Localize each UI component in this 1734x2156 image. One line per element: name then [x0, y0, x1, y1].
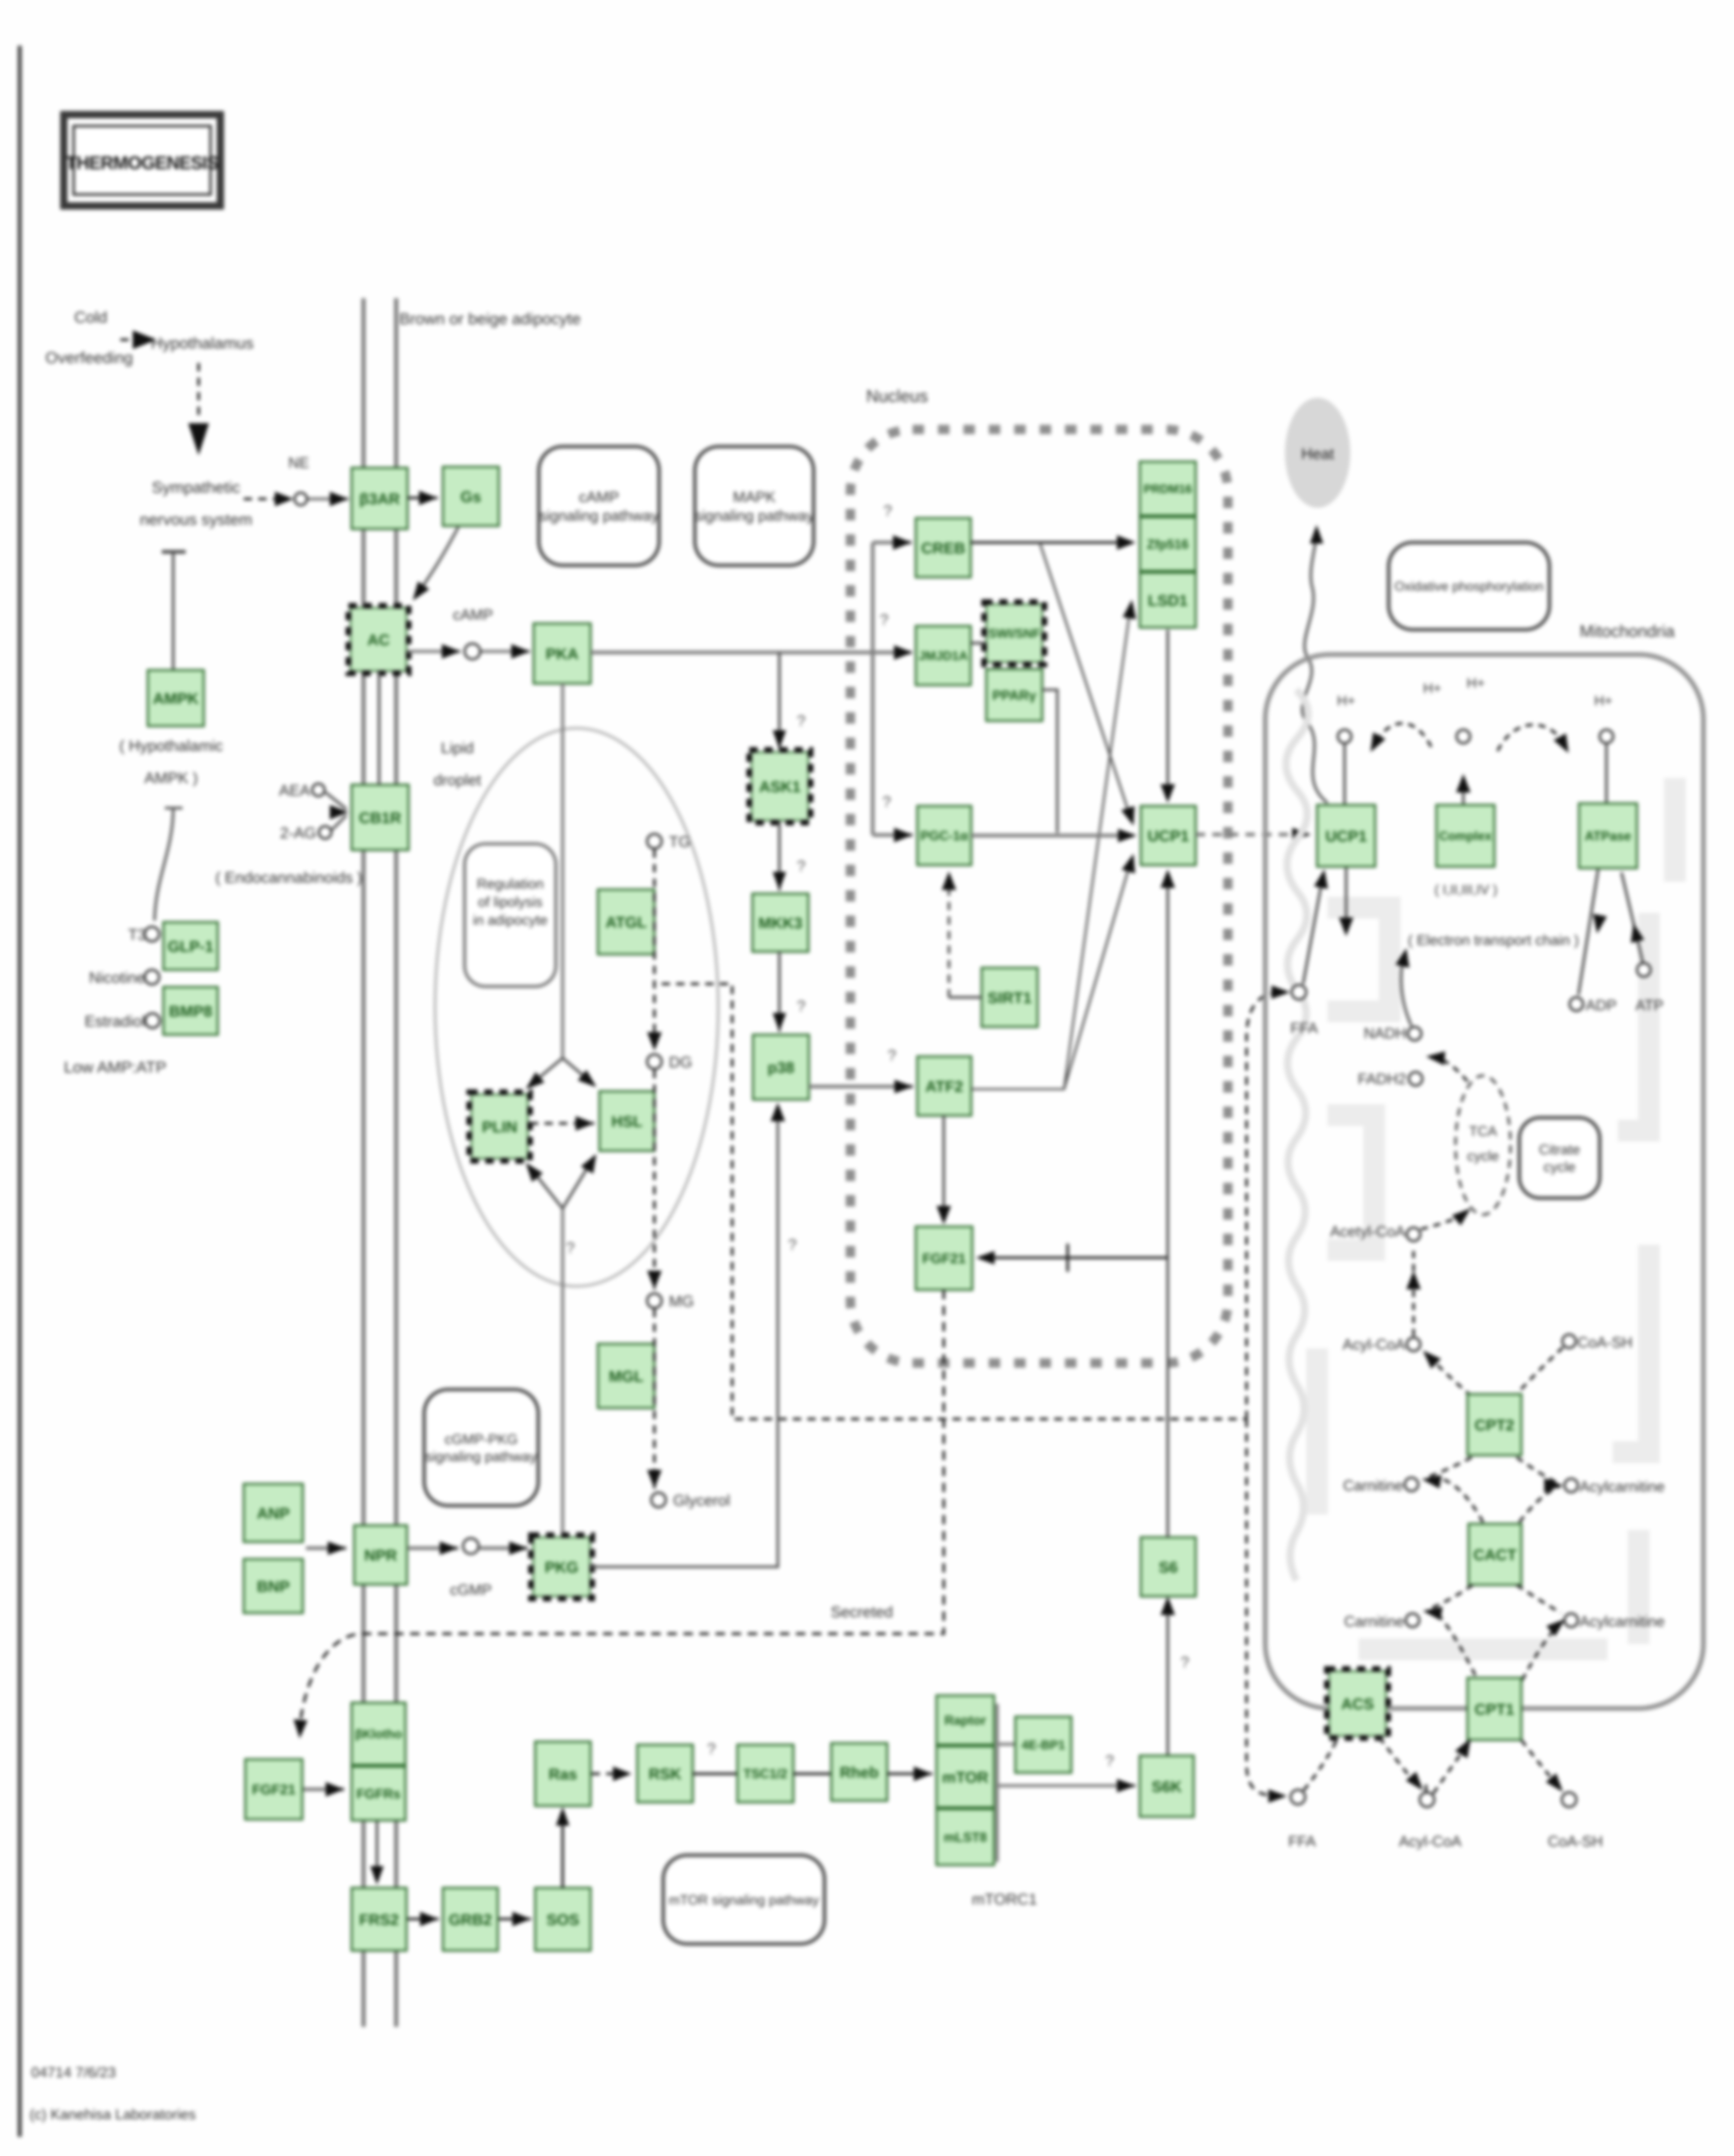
svg-text:UCP1: UCP1 — [1325, 828, 1367, 845]
svg-text:4E-BP1: 4E-BP1 — [1022, 1738, 1065, 1752]
node T3 — [145, 927, 159, 941]
arrow CREB branch to UCP1 gene — [1040, 543, 1135, 826]
arrow PRDM16 stack to UCP1 gene — [1160, 630, 1175, 803]
wire JMJD1A to SWI/SNF — [971, 642, 986, 645]
svg-text:Oxidative phosphorylation: Oxidative phosphorylation — [1394, 579, 1544, 594]
arrow Acyl-CoA to Acetyl-CoA (beta oxidation) — [1406, 1246, 1421, 1336]
ASK1 — [749, 750, 810, 823]
HSL — [599, 1091, 654, 1151]
arrow PKG to PLIN — [526, 1163, 563, 1208]
UCP1 mito — [1317, 805, 1375, 867]
svg-text:ACS: ACS — [1341, 1695, 1374, 1713]
svg-text:?: ? — [888, 1047, 897, 1064]
node FFA upper — [1292, 985, 1306, 999]
nucleus dashed boundary — [850, 429, 1228, 1363]
svg-text:TG: TG — [669, 833, 691, 851]
CB1R — [352, 785, 409, 850]
box Citrate cycle — [1519, 1118, 1600, 1198]
wire PKA down through lipid droplet — [561, 684, 564, 1058]
node CoA-SH in — [1562, 1334, 1576, 1348]
wire S6 to UCP1 line — [1167, 1258, 1169, 1537]
Raptor — [936, 1695, 994, 1745]
svg-text:PPARγ: PPARγ — [992, 687, 1037, 703]
box mTOR signaling pathway — [663, 1855, 824, 1944]
arrow S6K line up to UCP1 gene — [1160, 869, 1175, 1258]
B3AR — [352, 468, 408, 529]
svg-text:Overfeeding: Overfeeding — [46, 349, 133, 367]
svg-text:AMPK ): AMPK ) — [144, 770, 198, 787]
box cAMP signaling pathway — [539, 447, 659, 565]
svg-text:SWI/SNF: SWI/SNF — [988, 627, 1040, 641]
AC — [348, 606, 409, 673]
node ADP — [1570, 997, 1583, 1011]
svg-text:ATF2: ATF2 — [926, 1078, 963, 1095]
node Nicotine — [145, 970, 159, 984]
wire RSK to TSC1/2 — [693, 1773, 737, 1775]
svg-text:AMPK: AMPK — [153, 690, 199, 707]
PLIN — [469, 1092, 530, 1161]
svg-text:Regulation: Regulation — [477, 876, 543, 892]
arrow ACS to Acyl-CoA lower — [1379, 1737, 1426, 1792]
node NADH — [1408, 1027, 1421, 1040]
wire PKA branch vertical — [871, 543, 875, 835]
svg-text:CoA-SH: CoA-SH — [1548, 1833, 1603, 1850]
arrow S6K to S6 — [1160, 1596, 1175, 1756]
TCA cycle ellipse — [1456, 1076, 1511, 1215]
arrow PKG to HSL — [563, 1154, 596, 1208]
svg-text:CB1R: CB1R — [359, 810, 401, 827]
arrow H+ through UCP1 — [1339, 867, 1353, 936]
svg-text:MG: MG — [669, 1293, 694, 1310]
svg-text:( Electron transport chain ): ( Electron transport chain ) — [1408, 932, 1579, 948]
wavy arrow UCP1 to Heat — [1302, 525, 1327, 803]
node Estradiol — [145, 1013, 160, 1028]
node NE — [295, 493, 307, 505]
arrow PGC-1a to UCP1 gene — [971, 829, 1137, 842]
svg-text:cGMP: cGMP — [450, 1582, 492, 1598]
FGF21 external — [245, 1759, 302, 1819]
CPT2 — [1467, 1394, 1521, 1455]
svg-text:PLIN: PLIN — [482, 1119, 517, 1136]
ATGL — [598, 889, 654, 954]
node H+ complex — [1457, 730, 1470, 743]
node TG — [647, 834, 662, 849]
inhibition line T3/Nicotine/Estradiol to AMPK — [155, 808, 183, 921]
arrow ATF2 branch to UCP1 gene — [1064, 854, 1135, 1089]
svg-text:?: ? — [884, 503, 892, 520]
arrow ASK1 to MKK3 — [773, 821, 786, 891]
NPR — [354, 1525, 407, 1584]
ANP — [244, 1484, 303, 1542]
arrow H+ out complex — [1456, 774, 1471, 805]
arrow CPT2 to acylcarnitine upper — [1517, 1457, 1563, 1522]
arrow B3AR to Gs — [408, 491, 438, 505]
arrow MG to Glycerol — [647, 1309, 662, 1489]
svg-text:Zfp516: Zfp516 — [1147, 537, 1189, 552]
arrow cAMP to PKA — [481, 644, 530, 659]
svg-text:DG: DG — [669, 1054, 692, 1071]
title box THERMOGENESIS — [64, 115, 220, 206]
svg-text:Low AMP:ATP: Low AMP:ATP — [64, 1058, 166, 1076]
arrow NE to B3AR — [308, 492, 348, 506]
arrow H+ arc complex to UCP1 — [1371, 724, 1431, 752]
PRDM16 — [1140, 462, 1196, 516]
arrow S6K branch to FGF21 — [976, 1244, 1168, 1272]
svg-text:AC: AC — [367, 632, 389, 649]
Ras — [535, 1742, 591, 1806]
svg-text:ATPase: ATPase — [1585, 829, 1631, 844]
Rheb — [831, 1743, 887, 1801]
svg-text:GRB2: GRB2 — [449, 1911, 492, 1928]
box MAPK signaling pathway — [694, 447, 814, 565]
svg-text:PGC-1α: PGC-1α — [920, 829, 968, 843]
svg-text:CPT2: CPT2 — [1475, 1417, 1515, 1434]
node Acyl-CoA lower — [1420, 1792, 1434, 1807]
wire FGF21 secreted — [300, 1290, 944, 1727]
arrow PKA to CREB — [873, 535, 912, 550]
arrow Hypothalamus to SNS — [188, 363, 209, 455]
wire PKG up through lipid droplet — [561, 1208, 564, 1537]
node Acetyl-CoA — [1407, 1228, 1420, 1241]
node ATP — [1637, 963, 1651, 977]
svg-text:SOS: SOS — [547, 1911, 579, 1928]
mTOR — [936, 1746, 994, 1807]
svg-text:mTOR: mTOR — [942, 1769, 989, 1786]
node 2-AG — [319, 826, 331, 839]
S6 — [1141, 1537, 1196, 1596]
svg-text:signaling pathway: signaling pathway — [694, 508, 814, 524]
svg-text:cycle: cycle — [1467, 1148, 1499, 1164]
wire FFA from lipolysis — [662, 984, 1247, 1419]
arrow Rheb to mTORC1 — [887, 1766, 932, 1781]
Zfp516 — [1140, 517, 1196, 571]
svg-text:S6K: S6K — [1152, 1778, 1182, 1796]
arrow DG to MG — [647, 1070, 662, 1289]
arrow CREB to Zfp516 — [971, 535, 1136, 550]
svg-text:Lipid: Lipid — [441, 740, 473, 757]
4E-BP1 — [1015, 1717, 1071, 1773]
svg-text:CREB: CREB — [921, 540, 965, 557]
svg-text:UCP1: UCP1 — [1148, 828, 1189, 845]
arrow mTORC1 to S6K — [997, 1779, 1136, 1792]
mitochondria inner cristae — [1317, 778, 1675, 1649]
arrow CPT1 to CoA-SH lower — [1521, 1740, 1563, 1792]
svg-text:?: ? — [797, 713, 806, 730]
ATPase — [1579, 803, 1637, 868]
svg-text:Citrate: Citrate — [1539, 1142, 1581, 1157]
arrow NADH to ETC — [1395, 948, 1411, 1026]
arrow TG to DG — [647, 850, 662, 1051]
svg-text:(c) Kanehisa Laboratories: (c) Kanehisa Laboratories — [30, 2106, 196, 2122]
svg-text:Secreted: Secreted — [831, 1604, 893, 1621]
arrow Acetyl-CoA to TCA — [1421, 1208, 1471, 1229]
JMJD1A — [916, 626, 971, 685]
svg-text:?: ? — [788, 1236, 797, 1254]
wire PKG to p38 — [590, 1103, 785, 1567]
svg-text:Sympathetic: Sympathetic — [152, 478, 241, 496]
svg-text:MKK3: MKK3 — [758, 915, 802, 932]
svg-text:Heat: Heat — [1301, 446, 1334, 463]
arrow SOS to Ras — [556, 1807, 569, 1888]
svg-text:BNP: BNP — [257, 1578, 289, 1595]
S6K — [1140, 1756, 1194, 1817]
svg-text:Mitochondria: Mitochondria — [1579, 622, 1674, 641]
svg-text:Brown or beige adipocyte: Brown or beige adipocyte — [399, 310, 581, 328]
svg-text:H+: H+ — [1594, 693, 1612, 708]
node FFA lower — [1291, 1790, 1305, 1804]
arrow ATP to ATPase — [1621, 872, 1644, 962]
arrow Ras to RSK — [592, 1766, 632, 1781]
arrow Acyl-CoA lower to CPT1 — [1433, 1738, 1471, 1793]
svg-text:?: ? — [797, 998, 806, 1015]
node Acylcarnitine lower — [1564, 1613, 1578, 1627]
FGF21 nuclear — [916, 1227, 972, 1290]
svg-text:ASK1: ASK1 — [759, 778, 801, 796]
arrow MKK3 to p38 — [773, 952, 786, 1032]
wire TSC1/2 to Rheb — [793, 1773, 831, 1775]
wire CB1R to AC — [378, 672, 381, 785]
PKA — [534, 623, 591, 684]
svg-text:droplet: droplet — [433, 772, 481, 789]
svg-text:ATP: ATP — [1635, 997, 1663, 1014]
SIRT1 — [982, 968, 1038, 1027]
svg-text:FGFRs: FGFRs — [356, 1786, 400, 1801]
svg-text:?: ? — [1106, 1752, 1114, 1770]
svg-text:Carnitine: Carnitine — [1343, 1478, 1403, 1494]
svg-text:Raptor: Raptor — [944, 1714, 986, 1728]
svg-text:mLST8: mLST8 — [944, 1830, 987, 1845]
arrow AC to cAMP — [408, 644, 460, 659]
arrow TCA to NADH — [1426, 1051, 1467, 1081]
wire H+ into UCP1 — [1344, 743, 1346, 805]
wire mTORC1 bracket — [996, 1704, 999, 1862]
svg-text:Complex: Complex — [1439, 829, 1492, 843]
left page border line — [18, 46, 22, 2137]
svg-text:04714 7/6/23: 04714 7/6/23 — [31, 2064, 116, 2080]
svg-text:T3: T3 — [128, 926, 146, 943]
ACS — [1327, 1669, 1388, 1738]
Complex — [1436, 805, 1494, 867]
FRS2 — [352, 1888, 407, 1951]
wire CoA-SH to CPT2 — [1517, 1347, 1563, 1394]
svg-text:?: ? — [707, 1741, 716, 1758]
svg-text:ADP: ADP — [1586, 997, 1617, 1014]
svg-text:βKlotho: βKlotho — [355, 1728, 402, 1742]
MKK3 — [752, 894, 808, 952]
svg-text:cycle: cycle — [1544, 1159, 1576, 1175]
svg-text:H+: H+ — [1466, 675, 1485, 691]
node cGMP — [463, 1538, 479, 1554]
node CoA-SH lower — [1562, 1792, 1576, 1807]
arrow PKA to PGC-1a — [873, 828, 913, 842]
svg-text:cGMP-PKG: cGMP-PKG — [444, 1431, 518, 1447]
dashed arrow SNS to NE — [244, 498, 280, 500]
AMPK — [148, 670, 204, 726]
arrow ATF2 to LSD1 — [971, 600, 1136, 1089]
arrow H+ arc complex to ATPase — [1498, 725, 1569, 753]
svg-text:TCA: TCA — [1469, 1123, 1497, 1139]
node MG — [647, 1293, 662, 1308]
svg-text:signaling pathway: signaling pathway — [426, 1449, 537, 1465]
arrow ANP/BNP to NPR — [306, 1541, 346, 1555]
svg-text:?: ? — [880, 611, 889, 629]
arrow p38 to ATF2 — [809, 1080, 913, 1093]
wire H+ into ATPase — [1605, 743, 1608, 803]
SOS — [535, 1888, 591, 1951]
svg-text:NADH: NADH — [1364, 1025, 1406, 1042]
svg-text:FGF21: FGF21 — [252, 1782, 296, 1798]
UCP1 gene — [1141, 806, 1196, 865]
wire PKA main output — [591, 651, 912, 655]
ATF2 — [917, 1056, 971, 1116]
svg-text:β3AR: β3AR — [359, 491, 400, 508]
node H+ ucp1 — [1338, 730, 1351, 743]
PKG — [531, 1535, 592, 1598]
bKlotho — [352, 1703, 405, 1765]
svg-text:of lipolysis: of lipolysis — [478, 894, 543, 910]
node Glycerol — [651, 1493, 666, 1507]
svg-text:AEA: AEA — [279, 782, 310, 799]
svg-text:?: ? — [566, 1240, 575, 1257]
mLST8 — [936, 1809, 994, 1865]
arrow FGFR to FRS2 — [370, 1821, 384, 1885]
svg-text:S6: S6 — [1159, 1559, 1178, 1576]
lipid droplet ellipse — [435, 728, 718, 1286]
arrow CPT1 to acylcarnitine lower — [1517, 1585, 1565, 1680]
node FADH2 — [1409, 1072, 1422, 1086]
svg-text:mTOR signaling pathway: mTOR signaling pathway — [669, 1892, 819, 1908]
arrow PKA to HSL — [563, 1058, 596, 1087]
node Carnitine lower — [1406, 1613, 1419, 1627]
svg-text:FADH2: FADH2 — [1358, 1071, 1406, 1088]
svg-text:Acetyl-CoA: Acetyl-CoA — [1330, 1223, 1406, 1240]
svg-text:FFA: FFA — [1290, 1020, 1318, 1037]
arrow Cold to Hypothalamus — [120, 330, 157, 349]
svg-text:Cold: Cold — [74, 308, 107, 326]
svg-text:Acyl-CoA: Acyl-CoA — [1399, 1833, 1462, 1850]
arrow UCP1 gene to mitochondrial UCP1 — [1196, 828, 1311, 841]
svg-text:MGL: MGL — [609, 1368, 644, 1385]
svg-text:LSD1: LSD1 — [1148, 592, 1188, 609]
svg-text:ATGL: ATGL — [606, 914, 647, 931]
svg-text:H+: H+ — [1423, 680, 1441, 696]
GRB2 — [443, 1888, 498, 1951]
TSC1/2 — [737, 1745, 793, 1802]
BNP — [244, 1559, 303, 1613]
arrow NPR to cGMP — [408, 1541, 458, 1555]
SWI/SNF — [984, 602, 1044, 664]
GLP-1 — [163, 922, 218, 970]
wire FFA to ACS — [1304, 1740, 1337, 1790]
svg-text:Carnitine: Carnitine — [1344, 1613, 1404, 1630]
arrow endocannabinoids to CB1R — [326, 792, 348, 830]
svg-text:H+: H+ — [1337, 693, 1355, 708]
node AEA — [312, 784, 325, 796]
svg-text:JMJD1A: JMJD1A — [919, 649, 968, 663]
node Acylcarnitine upper — [1564, 1479, 1578, 1492]
svg-text:Ras: Ras — [549, 1766, 577, 1783]
arrow cGMP to PKG — [480, 1541, 528, 1555]
svg-text:Nucleus: Nucleus — [866, 386, 928, 406]
svg-text:Acylcarnitine: Acylcarnitine — [1579, 1613, 1665, 1630]
arrow ATPase to ADP — [1578, 869, 1607, 995]
arrow ATF2 to FGF21 — [936, 1116, 951, 1225]
svg-text:HSL: HSL — [611, 1113, 642, 1130]
LSD1 — [1140, 573, 1196, 628]
wire SIRT1 to PGC-1a — [942, 871, 982, 997]
BMP8 — [163, 987, 218, 1035]
svg-text:( Endocannabinoids ): ( Endocannabinoids ) — [215, 869, 362, 886]
svg-text:NE: NE — [288, 455, 309, 471]
svg-text:?: ? — [883, 794, 891, 811]
svg-text:Nicotine: Nicotine — [89, 969, 145, 986]
svg-text:THERMOGENESIS: THERMOGENESIS — [66, 153, 218, 173]
cell membrane double line — [361, 298, 366, 2027]
wire FFA branch down to beta-oxidation — [1247, 1419, 1287, 1803]
svg-text:PKA: PKA — [546, 646, 578, 663]
arrow PLIN to HSL — [530, 1116, 594, 1131]
svg-text:mTORC1: mTORC1 — [972, 1891, 1037, 1908]
CPT1 — [1467, 1678, 1521, 1740]
p38 — [753, 1035, 809, 1100]
svg-text:CoA-SH: CoA-SH — [1577, 1334, 1632, 1351]
mitochondria outer membrane — [1265, 655, 1703, 1708]
svg-text:Acylcarnitine: Acylcarnitine — [1579, 1479, 1665, 1495]
svg-text:cAMP: cAMP — [453, 607, 493, 623]
svg-text:Hypothalamus: Hypothalamus — [151, 334, 254, 352]
FGFRs — [352, 1766, 405, 1820]
svg-text:CACT: CACT — [1473, 1547, 1516, 1564]
svg-text:?: ? — [1181, 1654, 1190, 1671]
svg-text:TSC1/2: TSC1/2 — [744, 1767, 788, 1782]
arrow CACT to carnitine upper — [1422, 1457, 1483, 1522]
svg-text:ANP: ANP — [257, 1505, 289, 1522]
svg-text:2-AG: 2-AG — [280, 825, 316, 842]
svg-text:FRS2: FRS2 — [359, 1911, 399, 1928]
svg-text:Acyl-CoA: Acyl-CoA — [1343, 1337, 1406, 1353]
node DG — [647, 1054, 662, 1069]
wire SWI/SNF complex to UCP1 gene line — [1042, 690, 1057, 833]
svg-text:( I,II,III,IV ): ( I,II,III,IV ) — [1434, 882, 1497, 897]
PPARg — [986, 669, 1042, 721]
svg-text:p38: p38 — [767, 1059, 794, 1076]
node Carnitine upper — [1405, 1478, 1418, 1491]
arrow PKA to PLIN — [526, 1058, 563, 1089]
svg-text:Estradiol: Estradiol — [85, 1013, 145, 1030]
svg-text:PRDM16: PRDM16 — [1143, 482, 1192, 495]
node cAMP — [465, 644, 480, 659]
svg-text:in adipocyte: in adipocyte — [473, 912, 548, 928]
svg-text:RSK: RSK — [649, 1765, 682, 1783]
svg-text:signaling pathway: signaling pathway — [539, 508, 659, 524]
svg-text:cAMP: cAMP — [579, 489, 619, 506]
PGC-1a — [917, 806, 971, 865]
svg-text:Rheb: Rheb — [840, 1764, 879, 1781]
RSK — [637, 1745, 693, 1802]
Gs — [443, 467, 499, 526]
arrow GRB2 to SOS — [499, 1912, 531, 1926]
wire FFA branch up to UCP1 activation — [1247, 985, 1290, 1419]
wire mTORC1 to 4E-BP1 — [997, 1743, 1014, 1746]
node Acyl-CoA in — [1407, 1338, 1420, 1351]
inhibition line AMPK to SNS — [162, 552, 186, 669]
svg-text:?: ? — [797, 858, 806, 875]
Heat symbol — [1285, 398, 1350, 508]
svg-text:PKG: PKG — [544, 1559, 578, 1576]
box Regulation of lipolysis in adipocyte — [465, 844, 556, 986]
svg-text:FGF21: FGF21 — [922, 1251, 966, 1267]
svg-text:nervous system: nervous system — [139, 510, 252, 528]
